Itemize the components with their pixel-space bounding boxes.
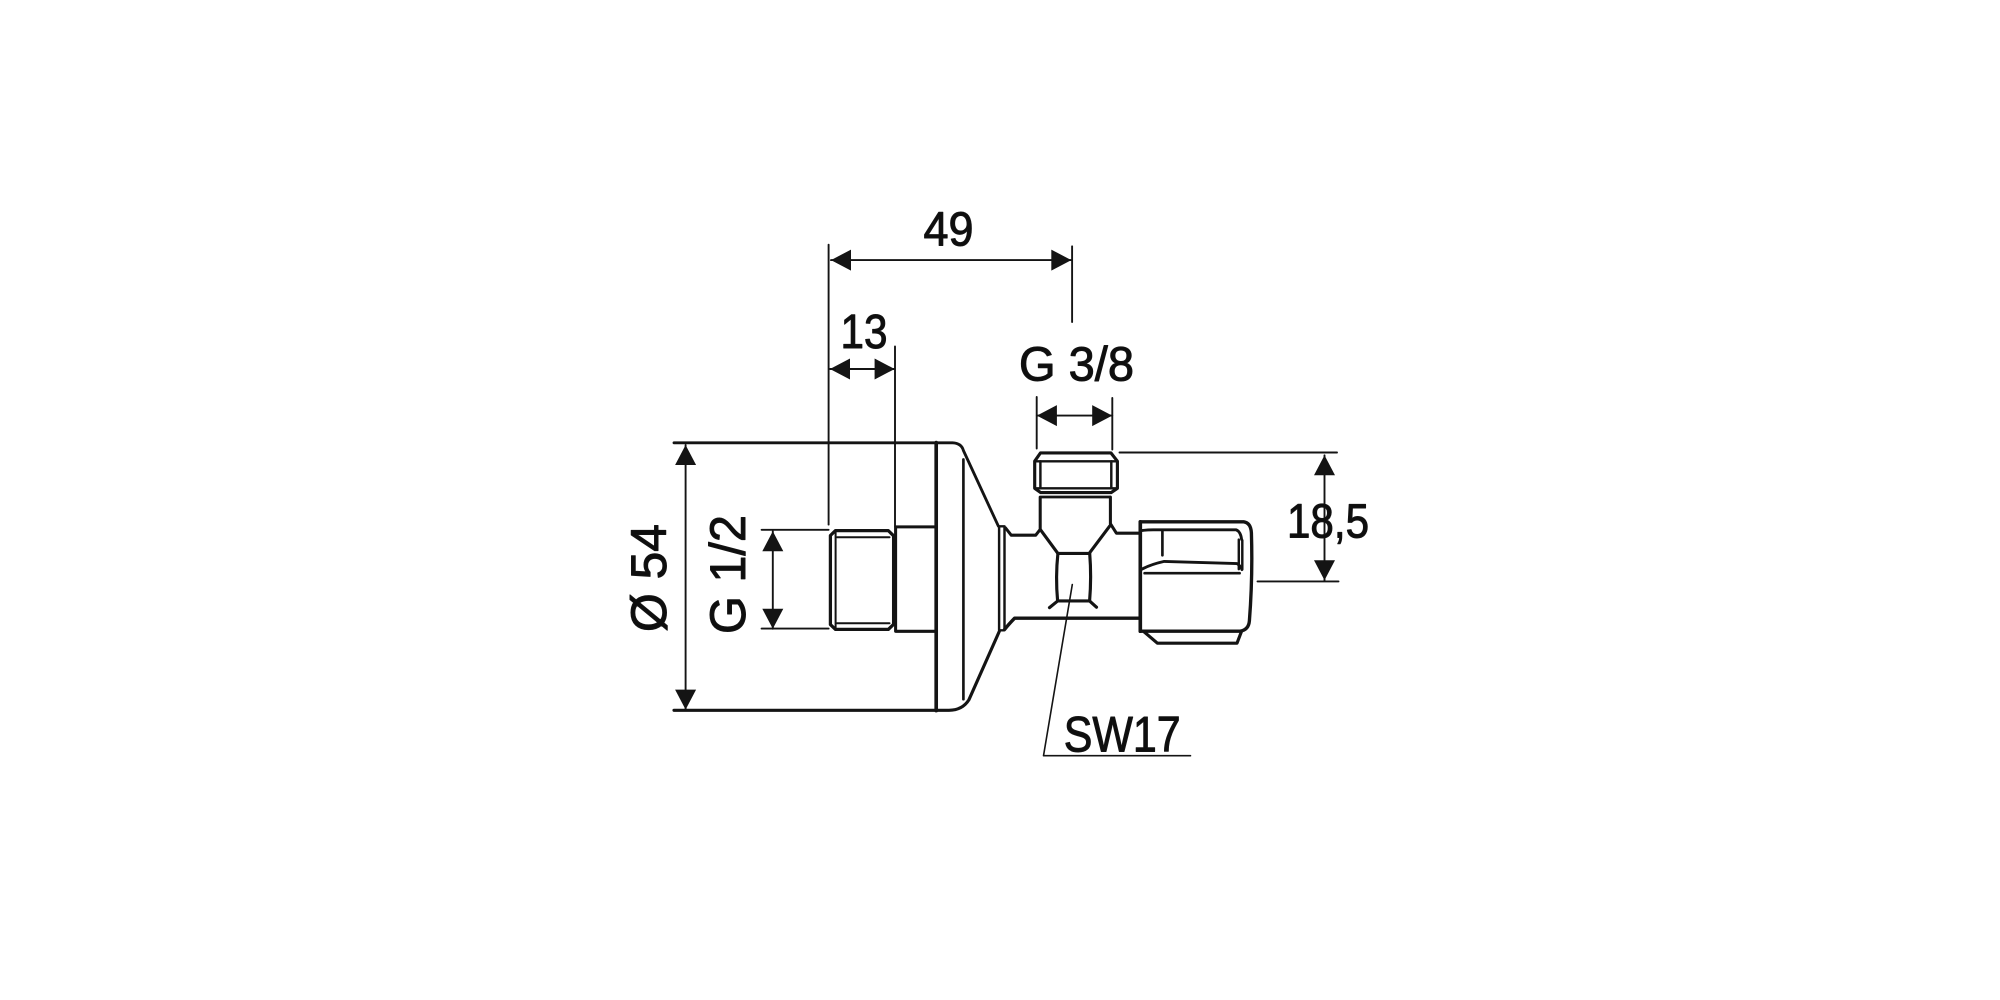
- dimension 49: [829, 245, 1073, 525]
- flange bottom edge + lower cone: [674, 631, 999, 710]
- dimension G 3/8: [1037, 397, 1113, 450]
- handwheel inner recess top: [1141, 530, 1241, 540]
- handwheel left edge emphasized: [1138, 522, 1142, 631]
- collar between thread and flange: [896, 527, 936, 631]
- dimension 13: [830, 347, 895, 527]
- handwheel outline: [1140, 522, 1252, 631]
- wall flange disc face: [934, 443, 938, 711]
- svg-text:G 1/2: G 1/2: [700, 515, 756, 634]
- svg-text:13: 13: [841, 306, 888, 359]
- handwheel inner verticals right: [1238, 540, 1240, 570]
- svg-text:SW17: SW17: [1064, 707, 1181, 763]
- svg-text:G 3/8: G 3/8: [1019, 339, 1134, 392]
- svg-text:Ø 54: Ø 54: [621, 524, 677, 632]
- G 3/8 male thread (top outlet): [1035, 453, 1118, 497]
- svg-text:49: 49: [924, 204, 974, 257]
- handwheel bottom skirt: [1144, 631, 1242, 643]
- svg-text:18,5: 18,5: [1287, 496, 1369, 549]
- step rim between cone and body: [999, 526, 1004, 630]
- handwheel grip lower curve: [1141, 561, 1242, 569]
- body barrel top, left part: [1006, 497, 1041, 535]
- flange top edge + upper cone: [674, 443, 998, 526]
- neck right side down to body: [1110, 497, 1139, 533]
- SW17 leader line: [1044, 585, 1191, 756]
- body barrel bottom: [1005, 618, 1139, 629]
- dimension G 1/2: [762, 530, 829, 629]
- handwheel front parting line: [1145, 572, 1240, 575]
- G 1/2 male thread (left connector): [830, 531, 893, 630]
- flange disc right edge: [962, 460, 965, 700]
- dimension 18,5: [1120, 453, 1339, 582]
- hex section SW17 with transition cones: [1041, 526, 1110, 608]
- dimension Ø 54: [685, 445, 687, 710]
- handwheel inner vertical left: [1161, 531, 1164, 555]
